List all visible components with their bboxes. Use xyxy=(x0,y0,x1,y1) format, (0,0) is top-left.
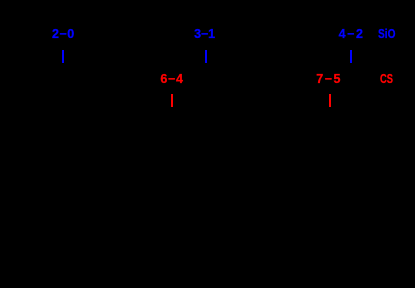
bond label 6-4 xyxy=(160,73,183,86)
bond 4-2 highlight line xyxy=(350,50,352,64)
bond 2-0 highlight line xyxy=(62,50,64,64)
bond type label SiO xyxy=(378,28,395,41)
bond label 7-5 xyxy=(316,73,342,86)
bond label 2-0 xyxy=(52,28,75,41)
bond label 3-1 xyxy=(194,28,215,41)
bond 7-5 highlight line xyxy=(329,94,331,108)
bond 3-1 highlight line xyxy=(205,50,207,64)
bond label 4-2 xyxy=(339,28,365,41)
bond 6-4 highlight line xyxy=(171,94,173,108)
bond type label CS xyxy=(380,73,393,86)
